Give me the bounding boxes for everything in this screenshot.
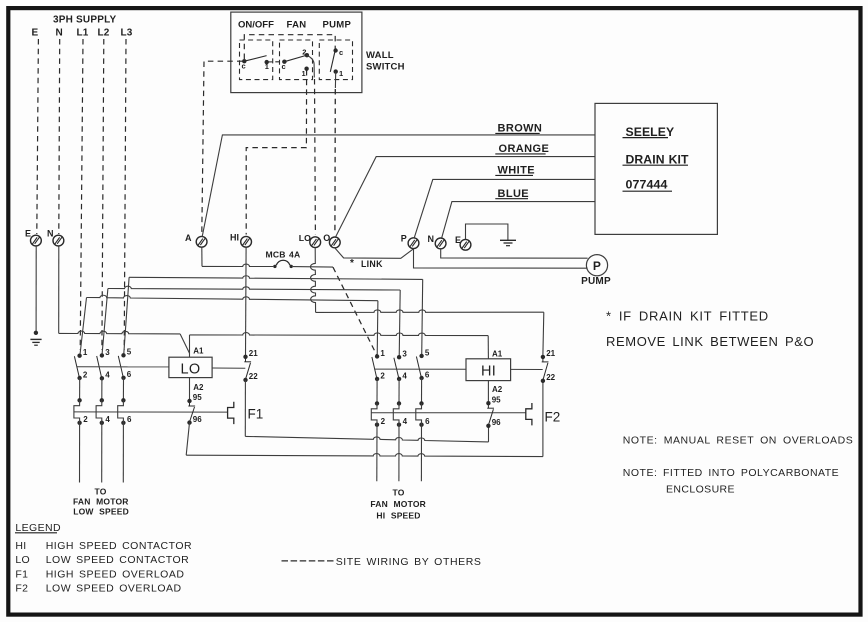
LO aux contact 21-22: [243, 355, 247, 359]
svg-text:2: 2: [381, 417, 386, 426]
svg-text:6: 6: [127, 415, 132, 424]
HI overload element 3: [419, 401, 423, 405]
wire LO pole3 bottom to overload: [101, 378, 103, 400]
svg-text:L3: L3: [121, 28, 133, 39]
svg-text:SWITCH: SWITCH: [366, 62, 405, 73]
wire LO 96 down-right to HI 22: [186, 423, 189, 456]
HI coil box: [466, 359, 511, 381]
svg-text:FAN MOTOR: FAN MOTOR: [370, 499, 426, 509]
svg-text:F1: F1: [15, 568, 28, 580]
pump motor P: [586, 255, 607, 276]
earth bracket from E right: [466, 224, 508, 240]
svg-text:3: 3: [105, 348, 110, 357]
FAN switch contacts: [282, 60, 286, 64]
svg-text:NOTE: FITTED INTO POLYCARBO: NOTE: FITTED INTO POLYCARBONATE: [623, 467, 839, 479]
svg-text:F1: F1: [248, 407, 264, 422]
svg-text:FAN: FAN: [287, 20, 307, 31]
svg-text:ORANGE: ORANGE: [499, 143, 550, 155]
bus L1 to HI pole1: [87, 295, 378, 300]
svg-text:HI SPEED: HI SPEED: [376, 510, 420, 520]
wire HI pole bottoms to overloads: [376, 379, 378, 404]
LO overload element 3: [121, 398, 125, 402]
svg-text:P: P: [401, 234, 407, 244]
svg-text:PUMP: PUMP: [581, 276, 611, 287]
svg-text:HI: HI: [230, 233, 239, 243]
svg-text:A: A: [185, 233, 192, 243]
bus L2 corner to LO pole3: [102, 289, 108, 356]
HI A2 to 95: [487, 381, 489, 404]
svg-text:A2: A2: [492, 385, 503, 394]
svg-text:REMOVE LINK BETWEEN P&O: REMOVE LINK BETWEEN P&O: [606, 334, 814, 349]
svg-text:21: 21: [546, 349, 555, 358]
wire WHITE from P: [414, 179, 595, 238]
svg-text:MCB 4A: MCB 4A: [266, 250, 301, 260]
wire E supply (site wiring): [37, 39, 39, 234]
wire E to ground: [35, 246, 37, 333]
svg-text:077444: 077444: [626, 178, 668, 192]
svg-text:4: 4: [403, 417, 408, 426]
svg-text:4: 4: [105, 415, 110, 424]
wire ON/OFF-1 to FAN-c (dashed): [268, 61, 283, 63]
bus L3 corner to LO pole5: [124, 277, 129, 355]
svg-text:NOTE: MANUAL RESET ON OVER: NOTE: MANUAL RESET ON OVERLOADS: [623, 435, 854, 447]
wire LO to HI-contactor 21: [316, 310, 544, 313]
wire L1 supply (site wiring): [80, 39, 83, 350]
svg-text:LINK: LINK: [361, 259, 383, 269]
LO blade linkage: [77, 366, 169, 368]
svg-text:c: c: [282, 62, 286, 71]
wire MCB to node under O: [293, 266, 333, 269]
svg-text:96: 96: [492, 418, 501, 427]
svg-text:1: 1: [265, 62, 269, 71]
svg-text:SEELEY: SEELEY: [626, 125, 675, 139]
svg-text:95: 95: [193, 393, 202, 402]
svg-text:HI: HI: [15, 540, 26, 552]
HI coil to aux blade: [511, 368, 543, 370]
LO contactor pole 1-2: [79, 336, 81, 355]
LO coil to aux blade: [212, 367, 245, 369]
svg-text:22: 22: [249, 372, 258, 381]
ground right: [500, 239, 516, 241]
wire L3 supply (site wiring): [124, 39, 126, 350]
svg-text:3: 3: [402, 350, 407, 359]
wire HI motor leads: [376, 425, 378, 482]
svg-text:c: c: [339, 48, 343, 57]
svg-text:ON/OFF: ON/OFF: [238, 20, 274, 31]
svg-text:HIGH SPEED OVERLOAD: HIGH SPEED OVERLOAD: [46, 568, 185, 580]
LO overload element 2: [100, 398, 104, 402]
svg-text:6: 6: [127, 370, 132, 379]
svg-text:c: c: [242, 62, 246, 71]
svg-text:DRAIN KIT: DRAIN KIT: [626, 152, 689, 166]
HI aux contact 21-22: [541, 355, 545, 359]
svg-text:2: 2: [83, 370, 88, 379]
wire P to pump motor: [414, 249, 588, 268]
LO coil box: [169, 357, 212, 377]
svg-text:HIGH SPEED CONTACTOR: HIGH SPEED CONTACTOR: [46, 540, 192, 552]
wire N to coil feed: [58, 246, 60, 333]
svg-text:FAN MOTOR: FAN MOTOR: [73, 496, 129, 506]
ON/OFF switch dashed box: [240, 40, 273, 80]
svg-text:LOW SPEED OVERLOAD: LOW SPEED OVERLOAD: [46, 583, 182, 595]
svg-text:TO: TO: [94, 487, 106, 497]
LO overload contact 95-96: [187, 399, 191, 403]
wire ON/OFF-c to A terminal (dashed): [202, 61, 243, 234]
svg-text:6: 6: [425, 370, 430, 379]
ground left: [30, 338, 41, 340]
LO overload element 1: [77, 398, 81, 402]
svg-text:F2: F2: [545, 410, 561, 425]
svg-text:F2: F2: [15, 583, 28, 595]
svg-text:N: N: [47, 229, 54, 239]
svg-text:*: *: [350, 258, 354, 269]
wire L2 supply (site wiring): [102, 39, 104, 350]
wire A to MCB: [201, 247, 203, 266]
LO overload trip linkage to F1: [74, 411, 228, 413]
HI overload element 1: [375, 401, 379, 405]
bus L3 to HI pole5: [129, 276, 423, 280]
svg-text:P: P: [593, 259, 601, 273]
bus L1 corner to LO pole1: [80, 298, 87, 356]
site wiring key: [282, 560, 335, 562]
HI overload element 2: [397, 401, 401, 405]
wire LO pole5 bottom to overload: [122, 378, 124, 401]
PUMP switch dashed box: [319, 40, 352, 80]
svg-text:4: 4: [402, 371, 407, 380]
wire LO pole1 bottom to overload: [79, 378, 81, 400]
svg-text:A1: A1: [492, 349, 503, 358]
ON/OFF switch contacts: [242, 59, 246, 63]
HI blade linkage: [374, 368, 466, 370]
wire N to pump motor: [441, 249, 588, 258]
svg-text:L2: L2: [98, 28, 110, 39]
svg-text:N: N: [56, 28, 63, 39]
svg-text:PUMP: PUMP: [323, 20, 352, 31]
svg-text:* IF DRAIN KIT FITTED: * IF DRAIN KIT FITTED: [606, 308, 769, 323]
svg-text:5: 5: [425, 348, 430, 357]
HI overload contact 95-96: [486, 401, 490, 405]
svg-text:E: E: [25, 229, 31, 239]
svg-text:E: E: [32, 28, 39, 39]
LO A2 to 95: [189, 378, 191, 401]
wire ORANGE from O: [336, 157, 595, 238]
wire LO motor leads: [79, 423, 81, 483]
wire HI terminal to LO-contactor 21: [245, 247, 248, 355]
HI overload trip linkage to F2: [371, 412, 526, 414]
LO contactor pole 5-6: [121, 353, 125, 357]
svg-text:SITE WIRING BY OTHERS: SITE WIRING BY OTHERS: [336, 556, 482, 568]
wire MCB to HI pole1 (dashed): [333, 267, 377, 356]
svg-text:HI: HI: [481, 363, 496, 379]
svg-text:1: 1: [83, 348, 88, 357]
link wire O to P: [335, 248, 414, 258]
F1 bracket: [228, 402, 234, 424]
PUMP switch contacts: [333, 48, 337, 52]
svg-text:L1: L1: [77, 28, 89, 39]
svg-text:BLUE: BLUE: [498, 188, 530, 200]
svg-text:LO: LO: [181, 362, 201, 378]
wire FAN-1 to HI terminal (dashed): [246, 70, 306, 235]
svg-text:N: N: [428, 234, 435, 244]
HI contactor pole 5-6: [419, 354, 423, 358]
wire N supply (site wiring): [58, 39, 61, 234]
svg-text:WALL: WALL: [366, 50, 394, 61]
svg-text:95: 95: [492, 395, 501, 404]
svg-text:21: 21: [249, 349, 258, 358]
svg-text:4: 4: [105, 371, 110, 380]
svg-text:TO: TO: [392, 488, 404, 498]
svg-text:5: 5: [127, 348, 132, 357]
svg-text:LOW SPEED CONTACTOR: LOW SPEED CONTACTOR: [46, 554, 190, 566]
Seeley drain kit box: [595, 103, 717, 234]
bus L2 to HI pole3: [108, 286, 400, 290]
svg-text:22: 22: [546, 373, 555, 382]
svg-text:LO: LO: [15, 554, 30, 566]
HI contactor pole 3-4: [397, 355, 401, 359]
svg-text:3PH SUPPLY: 3PH SUPPLY: [53, 15, 116, 26]
wire FAN-2 to LO terminal: [307, 55, 314, 77]
svg-text:1: 1: [380, 349, 385, 358]
FAN switch dashed box: [280, 40, 313, 80]
coil feed A1 junction: [189, 335, 191, 357]
svg-text:1: 1: [302, 69, 306, 78]
wire LO 22 down-right to HI 96: [245, 380, 485, 442]
svg-text:2: 2: [380, 371, 385, 380]
svg-text:6: 6: [425, 417, 430, 426]
wire BROWN from A: [202, 135, 595, 237]
svg-text:A1: A1: [193, 347, 204, 356]
HI contactor pole 1-2: [375, 354, 379, 358]
svg-text:LOW SPEED: LOW SPEED: [73, 506, 129, 516]
svg-text:ENCLOSURE: ENCLOSURE: [666, 484, 735, 496]
wire link ON/OFF-c to PUMP-c (dashed): [244, 35, 335, 59]
svg-text:A2: A2: [193, 383, 204, 392]
LO contactor pole 3-4: [100, 353, 104, 357]
svg-text:96: 96: [193, 415, 202, 424]
wire PUMP-1 to O terminal: [334, 72, 336, 88]
svg-text:1: 1: [339, 69, 343, 78]
svg-text:2: 2: [83, 415, 88, 424]
svg-text:2: 2: [302, 48, 306, 57]
wire BLUE from N: [442, 202, 595, 239]
wire LO terminal down: [310, 248, 315, 313]
wall switch enclosure box: [231, 12, 362, 93]
F2 bracket: [526, 403, 532, 425]
